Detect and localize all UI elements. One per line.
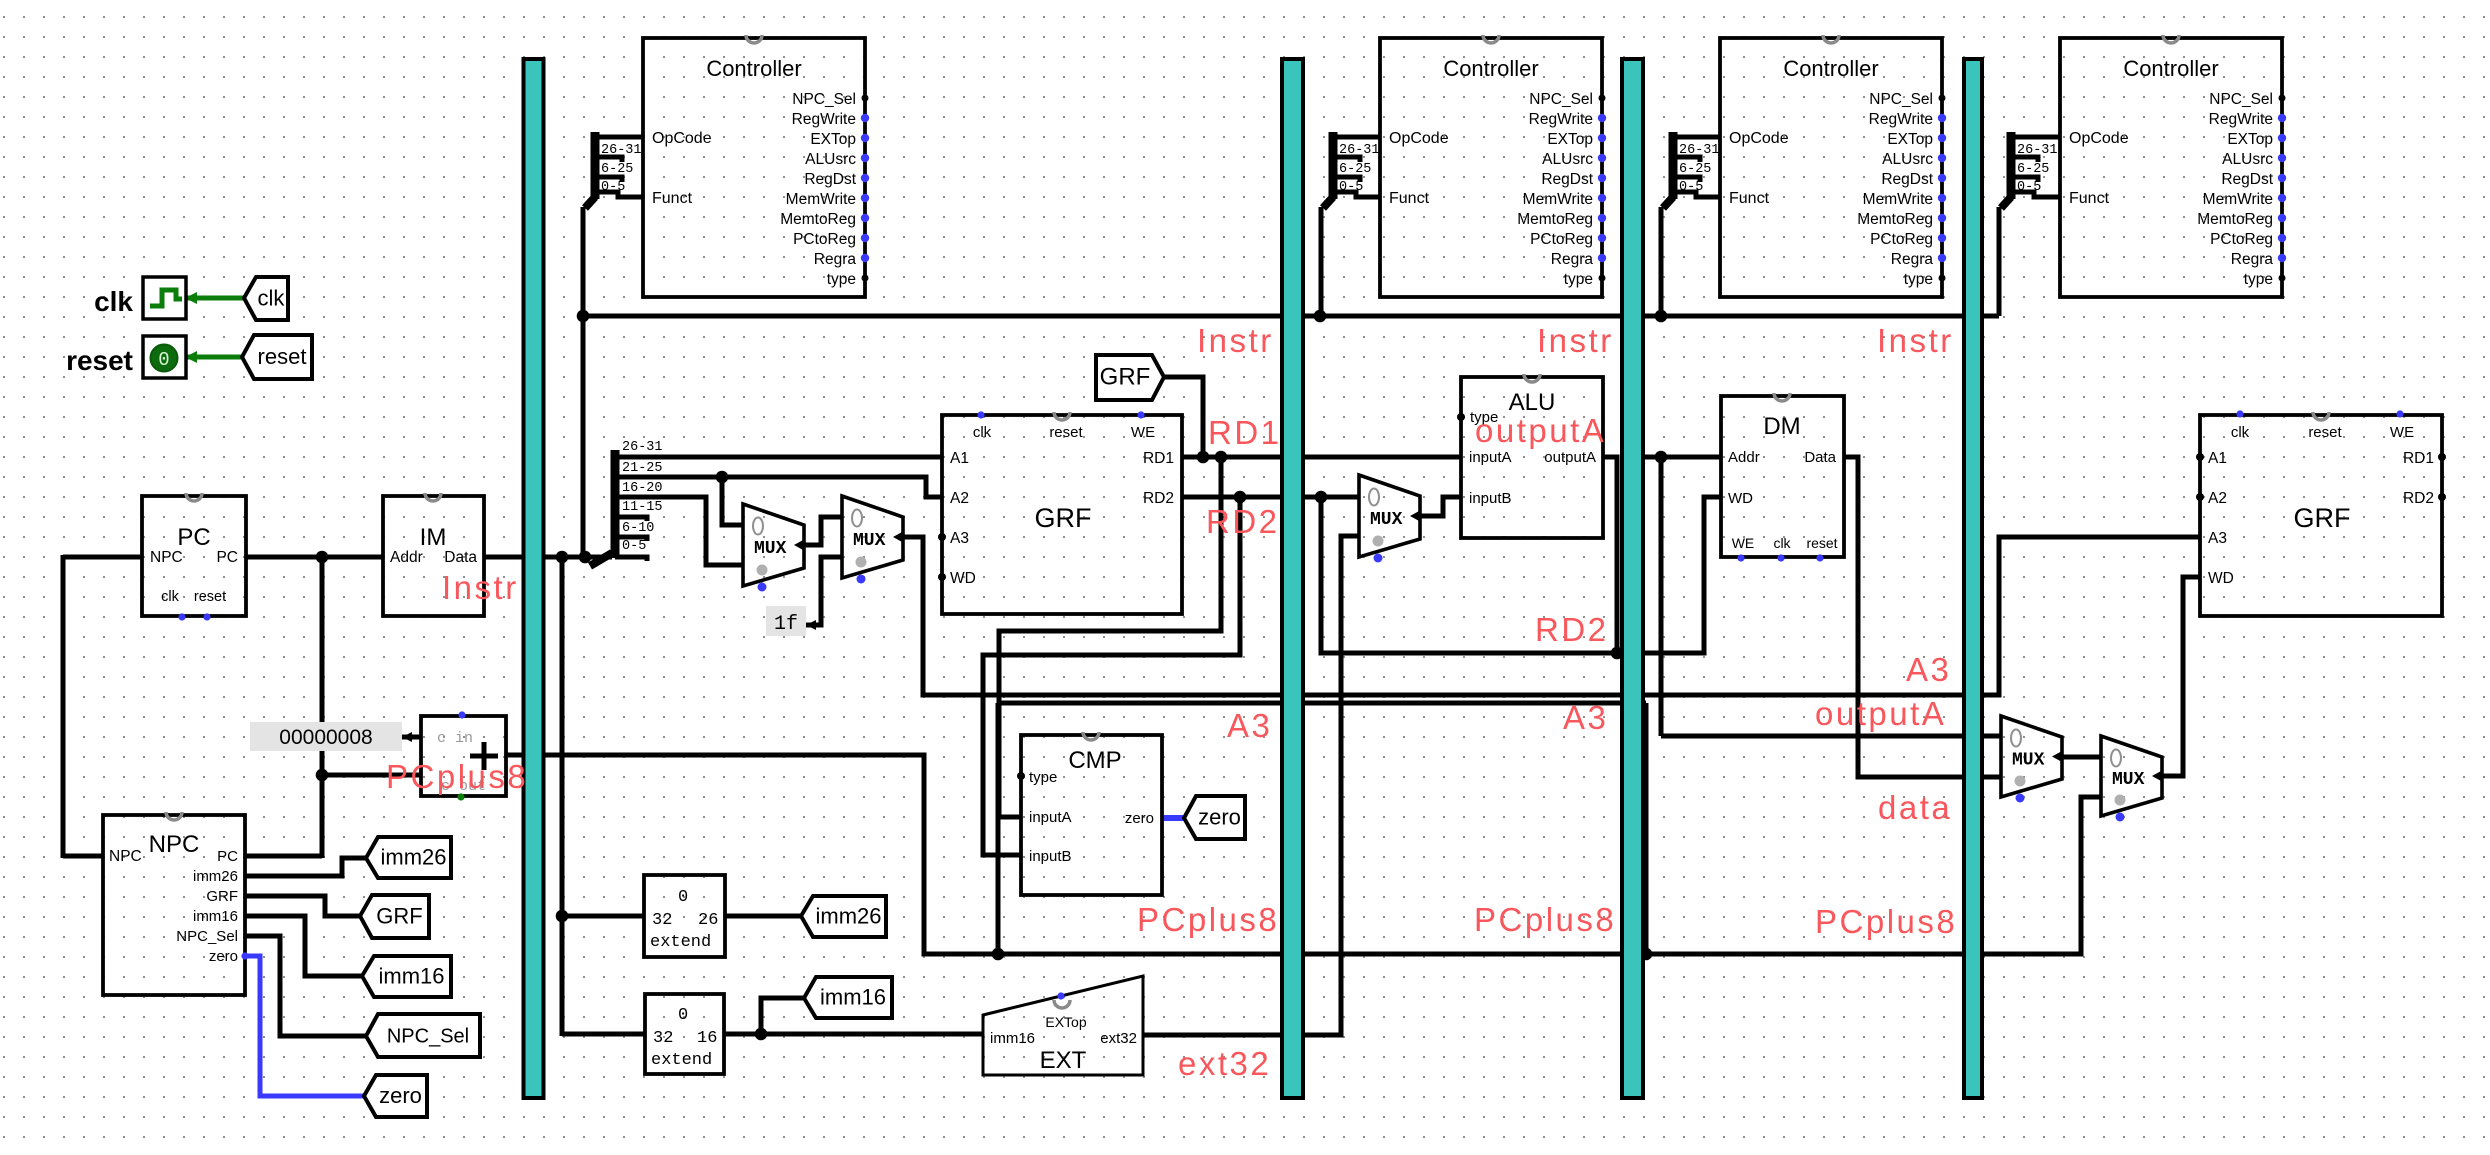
svg-text:extend: extend (651, 1051, 712, 1070)
svg-text:imm16: imm16 (193, 908, 238, 925)
GRF1 A3 pin dot (938, 533, 946, 541)
tunnel zero out (1184, 796, 1245, 839)
svg-text:MemtoReg: MemtoReg (2197, 211, 2273, 228)
svg-text:imm16: imm16 (820, 985, 886, 1010)
tunnel reset (242, 335, 312, 379)
svg-text:WD: WD (950, 570, 976, 587)
U3 RegWrite pin (1938, 114, 1946, 122)
arrowhead 1f wire (806, 620, 816, 630)
tunnel zero NPC (364, 1075, 427, 1117)
svg-text:RegWrite: RegWrite (1529, 111, 1593, 128)
svg-text:MemtoReg: MemtoReg (780, 211, 856, 228)
svg-text:reset: reset (66, 345, 133, 376)
wire MUX3 out to ALU inputB (1421, 497, 1461, 516)
IM anchor (425, 493, 441, 501)
svg-text:OpCode: OpCode (1389, 130, 1449, 147)
junction (1314, 310, 1327, 323)
adder PCplus8 (421, 716, 506, 796)
wire outputA loop to DM WD (1321, 497, 1721, 653)
svg-text:Regra: Regra (1891, 251, 1934, 268)
junction (556, 551, 569, 564)
CMP anchor (1083, 732, 1099, 740)
wire bits11-15 stub (615, 517, 647, 521)
svg-text:MemWrite: MemWrite (2203, 191, 2273, 208)
U2 PCtoReg pin (1598, 234, 1606, 242)
svg-text:ALUsrc: ALUsrc (805, 151, 856, 168)
adder plus sign (470, 742, 498, 770)
pipeline register bar 4 (1964, 59, 1982, 1098)
svg-text:A1: A1 (950, 450, 969, 467)
U4 Regra pin (2278, 254, 2286, 262)
svg-text:PC: PC (217, 848, 238, 865)
mux M2 (842, 496, 903, 578)
svg-text:zero: zero (209, 948, 238, 965)
svg-text:RD1: RD1 (2403, 450, 2434, 467)
svg-text:reset: reset (194, 589, 226, 605)
svg-text:ext32: ext32 (1100, 1030, 1137, 1047)
svg-text:clk: clk (94, 286, 133, 317)
comparator CMP (1021, 735, 1162, 895)
svg-text:NPC_Sel: NPC_Sel (1529, 91, 1593, 108)
svg-text:ALUsrc: ALUsrc (1542, 151, 1593, 168)
wire bits26-31 to GRF A1 (612, 455, 942, 460)
tunnel imm26 mid (801, 896, 886, 937)
wire NPC NPC_Sel out (245, 936, 366, 1036)
svg-text:RD1: RD1 (1143, 450, 1174, 467)
GRF1 clk pin (977, 411, 984, 418)
U4 RegDst pin (2278, 174, 2286, 182)
svg-text:Controller: Controller (1783, 56, 1878, 81)
GRF2 RD1 pin dot (2438, 453, 2446, 461)
wire ALU outputA drop (1603, 457, 1617, 655)
wire clk green (186, 296, 244, 301)
mux M3 (1359, 475, 1420, 557)
svg-text:RegDst: RegDst (804, 171, 856, 188)
svg-text:Regra: Regra (2231, 251, 2274, 268)
NPC zero pin (241, 952, 248, 959)
svg-text:zero: zero (1125, 810, 1154, 827)
GRF1 anchor / reset pin (1054, 412, 1070, 420)
svg-text:RegWrite: RegWrite (1869, 111, 1933, 128)
U4 MemWrite pin (2278, 194, 2286, 202)
svg-text:EXTop: EXTop (2227, 131, 2273, 148)
svg-text:imm26: imm26 (380, 845, 446, 870)
wire outputA forward vertical (1659, 457, 1664, 736)
svg-text:Regra: Regra (1551, 251, 1594, 268)
svg-text:MemWrite: MemWrite (1523, 191, 1593, 208)
U3 EXTop pin (1938, 134, 1946, 142)
PC reset pin (203, 613, 210, 620)
svg-text:EXTop: EXTop (1887, 131, 1933, 148)
register file GRF1 (942, 415, 1182, 614)
svg-text:Data: Data (1804, 449, 1836, 466)
memory IM (383, 496, 484, 616)
extender 32-26 (644, 875, 725, 957)
svg-text:MUX: MUX (853, 531, 886, 551)
U4 PCtoReg pin (2278, 234, 2286, 242)
svg-text:PCplus8: PCplus8 (386, 758, 528, 795)
svg-text:outputA: outputA (1544, 449, 1596, 466)
svg-text:PCtoReg: PCtoReg (1530, 231, 1593, 248)
wire bits21-25 to GRF A2 (612, 477, 942, 497)
U1 RegDst pin (861, 174, 869, 182)
svg-text:Funct: Funct (652, 190, 693, 207)
svg-text:A1: A1 (2208, 450, 2227, 467)
GRF2 RD2 pin dot (2438, 493, 2446, 501)
U2 ALUsrc pin (1598, 154, 1606, 162)
svg-text:RegWrite: RegWrite (2209, 111, 2273, 128)
wire NPC imm26 out (245, 858, 366, 876)
svg-text:type: type (1904, 271, 1933, 288)
svg-text:RegDst: RegDst (2221, 171, 2273, 188)
controller U3 (1720, 38, 1942, 297)
U2 EXTop pin (1598, 134, 1606, 142)
svg-text:EXT: EXT (1040, 1047, 1087, 1074)
EXT anchor (1054, 1000, 1070, 1008)
wire to MUX1 inA (722, 477, 743, 525)
tunnel imm26 NPC (366, 837, 451, 878)
GRF2 anchor / reset pin (2313, 412, 2329, 420)
svg-text:Funct: Funct (1729, 190, 1770, 207)
svg-text:Funct: Funct (2069, 190, 2110, 207)
svg-text:00000008: 00000008 (279, 726, 372, 749)
wire 1f const to MUX2 (806, 557, 842, 625)
wire bits6-10 stub (615, 537, 647, 541)
wire zero blue (245, 956, 364, 1096)
svg-text:PCplus8: PCplus8 (1474, 901, 1616, 938)
svg-text:26-31: 26-31 (1679, 143, 1720, 158)
svg-text:6-10: 6-10 (622, 521, 654, 536)
tunnel NPC_Sel NPC (366, 1014, 480, 1057)
wire ext32 to MUX3 inB (1143, 536, 1359, 1035)
U1 ALUsrc pin (861, 154, 869, 162)
svg-text:Instr: Instr (1537, 322, 1614, 359)
wire PCplus8 bus (506, 755, 2101, 954)
svg-text:32: 32 (652, 911, 672, 930)
splitter instruction to register fields (590, 553, 612, 566)
wire MUX1 out to MUX2 (804, 517, 842, 545)
svg-text:Controller: Controller (706, 56, 801, 81)
svg-text:type: type (827, 271, 856, 288)
svg-text:inputA: inputA (1469, 449, 1512, 466)
ALU anchor (1524, 374, 1540, 382)
svg-text:NPC_Sel: NPC_Sel (387, 1026, 469, 1048)
svg-text:type: type (2244, 271, 2273, 288)
wire NPC.PC output (245, 854, 322, 859)
wire to adder input B (322, 773, 421, 778)
tunnel GRF to RD1 (1096, 355, 1164, 400)
wire controller4 splitter feed (1997, 207, 2002, 316)
U1 NPC_Sel pin dot (862, 95, 869, 102)
arrowhead reset wire (185, 351, 197, 363)
svg-text:reset: reset (2308, 424, 2342, 441)
splitter U3 instruction fields (1663, 197, 1673, 208)
svg-text:11-15: 11-15 (622, 500, 663, 515)
svg-text:DM: DM (1763, 413, 1800, 440)
svg-text:OpCode: OpCode (652, 130, 712, 147)
U2 MemWrite pin (1598, 194, 1606, 202)
svg-text:RD2: RD2 (1143, 490, 1174, 507)
svg-text:zero: zero (1198, 805, 1241, 830)
wire outputA to MUX4 inA (1661, 734, 2001, 739)
svg-text:GRF: GRF (376, 904, 422, 929)
svg-text:GRF: GRF (206, 888, 238, 905)
svg-text:Regra: Regra (814, 251, 857, 268)
wire Instr down to extenders (560, 555, 565, 1036)
svg-text:EXTop: EXTop (1045, 1014, 1086, 1030)
wire PCplus8 branch left drop (996, 703, 1001, 954)
splitter U1 instruction fields (585, 197, 595, 208)
svg-text:type: type (1029, 769, 1057, 786)
DM anchor (1774, 393, 1790, 401)
PC anchor (186, 493, 202, 501)
tunnel GRF NPC (360, 895, 429, 938)
tunnel clk (244, 277, 288, 320)
U3 anchor (1823, 35, 1839, 43)
U2 NPC_Sel pin dot (1599, 95, 1606, 102)
svg-text:extend: extend (650, 933, 711, 952)
wire bits0-5 stub (615, 557, 647, 561)
wire RD2 to MUX3 inA (1182, 495, 1359, 500)
svg-text:Controller: Controller (1443, 56, 1538, 81)
arrowhead const wire (402, 732, 412, 742)
GRF2 clk pin (2236, 410, 2243, 417)
junction (1640, 948, 1653, 961)
svg-text:RegDst: RegDst (1881, 171, 1933, 188)
svg-text:A3: A3 (2208, 530, 2227, 547)
wire MUX4 out to MUX5 (2062, 755, 2101, 760)
wire controller1 splitter feed (581, 207, 586, 559)
svg-text:MemtoReg: MemtoReg (1517, 211, 1593, 228)
wire extend26 out to imm26 tunnel (725, 914, 801, 919)
U2 RegWrite pin (1598, 114, 1606, 122)
svg-text:Instr: Instr (1877, 322, 1954, 359)
svg-text:PC: PC (177, 524, 210, 551)
svg-text:outputA: outputA (1815, 695, 1946, 732)
svg-text:Addr: Addr (1728, 449, 1760, 466)
wire into 32-26 extend (562, 914, 644, 919)
svg-text:RD2: RD2 (2403, 490, 2434, 507)
wire PCplus8 branch (998, 701, 1646, 706)
EXT EXTop pin (1057, 992, 1064, 999)
extender 32-16 (645, 994, 724, 1074)
svg-text:6-25: 6-25 (601, 162, 633, 177)
svg-text:RegDst: RegDst (1541, 171, 1593, 188)
svg-text:CMP: CMP (1068, 747, 1121, 774)
arrowhead clk wire (185, 292, 197, 304)
svg-text:NPC: NPC (149, 831, 200, 858)
svg-text:PCtoReg: PCtoReg (793, 231, 856, 248)
svg-text:type: type (1564, 271, 1593, 288)
svg-text:ALUsrc: ALUsrc (1882, 151, 1933, 168)
svg-text:WE: WE (1732, 535, 1755, 551)
junction (1215, 451, 1228, 464)
svg-text:16: 16 (697, 1029, 717, 1048)
wire DM Data to MUX4 inB (1844, 457, 2001, 777)
svg-text:reset: reset (258, 344, 307, 369)
svg-text:26-31: 26-31 (2017, 143, 2058, 158)
svg-text:clk: clk (2231, 424, 2250, 441)
svg-text:0: 0 (158, 349, 169, 371)
block NPC (103, 815, 245, 995)
svg-text:Addr: Addr (390, 549, 423, 566)
svg-text:WE: WE (2390, 424, 2414, 441)
junction (579, 551, 592, 564)
svg-text:IM: IM (420, 524, 447, 551)
svg-text:A3: A3 (1227, 707, 1272, 744)
U1 MemWrite pin (861, 194, 869, 202)
splitter U4 instruction fields (2001, 197, 2011, 208)
svg-text:GRF: GRF (2294, 503, 2351, 533)
U3 RegDst pin (1938, 174, 1946, 182)
GRF1 WD pin dot (938, 573, 946, 581)
svg-text:Funct: Funct (1389, 190, 1430, 207)
ALU type pin dot (1457, 413, 1465, 421)
wire branch to imm16 tunnel (761, 998, 804, 1034)
GRF2 WE pin (2396, 410, 2403, 417)
svg-text:ALUsrc: ALUsrc (2222, 151, 2273, 168)
pipeline register bar 3 (1622, 59, 1643, 1098)
U1 Regra pin (861, 254, 869, 262)
svg-text:6-25: 6-25 (1339, 162, 1371, 177)
svg-text:1f: 1f (774, 613, 798, 636)
svg-text:26: 26 (698, 911, 718, 930)
wire NPC imm16 out (245, 916, 362, 976)
svg-text:PCtoReg: PCtoReg (1870, 231, 1933, 248)
U3 MemWrite pin (1938, 194, 1946, 202)
svg-text:A3: A3 (1906, 651, 1951, 688)
wire GRF tunnel to RD1 (1164, 377, 1203, 457)
svg-text:imm16: imm16 (990, 1030, 1035, 1047)
U1 anchor (746, 35, 762, 43)
svg-text:RD2: RD2 (1535, 611, 1609, 648)
U1 type pin dot (862, 275, 869, 282)
wire PC-out down to NPC (320, 557, 325, 858)
wire extend16 out to EXT (724, 1032, 983, 1037)
svg-text:RD2: RD2 (1206, 503, 1280, 540)
adder carry-out pin (457, 793, 464, 800)
mux M4 (2001, 716, 2062, 797)
svg-text:WD: WD (1728, 490, 1753, 507)
svg-text:Data: Data (444, 549, 477, 566)
memory DM (1721, 396, 1844, 557)
svg-text:RD1: RD1 (1208, 414, 1282, 451)
svg-text:NPC_Sel: NPC_Sel (1869, 91, 1933, 108)
svg-text:Instr: Instr (442, 569, 519, 606)
junction (1611, 647, 1624, 660)
pipeline register bar 2 (1282, 59, 1303, 1098)
svg-text:MemtoReg: MemtoReg (1857, 211, 1933, 228)
svg-text:reset: reset (1806, 535, 1837, 551)
controller U1 (643, 38, 865, 297)
GRF2 A2 pin dot (2196, 493, 2204, 501)
register PC (142, 496, 246, 616)
U3 MemtoReg pin (1938, 214, 1946, 222)
junction (755, 1028, 768, 1041)
svg-text:MUX: MUX (1370, 510, 1403, 530)
U1 RegWrite pin (861, 114, 869, 122)
extender EXT (983, 976, 1143, 1075)
svg-text:PCplus8: PCplus8 (1137, 901, 1279, 938)
svg-text:clk: clk (1773, 535, 1791, 551)
U3 PCtoReg pin (1938, 234, 1946, 242)
input pin reset (143, 336, 186, 378)
wire bits16-20 to MUX1 inB (612, 497, 743, 565)
U4 EXTop pin (2278, 134, 2286, 142)
junction (992, 948, 1005, 961)
junction (1655, 451, 1668, 464)
svg-text:OpCode: OpCode (2069, 130, 2129, 147)
svg-text:26-31: 26-31 (1339, 143, 1380, 158)
svg-text:data: data (1878, 789, 1952, 826)
U1 EXTop pin (861, 134, 869, 142)
svg-text:0-5: 0-5 (622, 539, 646, 554)
wire RD2 to CMP inputB (983, 497, 1240, 855)
svg-text:OpCode: OpCode (1729, 130, 1789, 147)
svg-text:NPC: NPC (150, 549, 183, 566)
svg-text:A2: A2 (2208, 490, 2227, 507)
svg-text:clk: clk (258, 286, 286, 311)
svg-text:PC: PC (216, 549, 238, 566)
svg-text:0-5: 0-5 (1679, 180, 1703, 195)
svg-text:21-25: 21-25 (622, 461, 663, 476)
tunnel imm16 mid (804, 977, 892, 1018)
svg-text:reset: reset (1049, 424, 1083, 441)
junction (1655, 310, 1668, 323)
CMP type pin dot (1017, 772, 1025, 780)
svg-text:0-5: 0-5 (601, 180, 625, 195)
svg-text:inputB: inputB (1029, 848, 1072, 865)
wire A3 net MUX2 out to GRF2 A3 (904, 537, 2200, 695)
svg-text:6-25: 6-25 (1679, 162, 1711, 177)
svg-text:PCplus8: PCplus8 (1815, 903, 1957, 940)
junction (716, 471, 729, 484)
PC clk pin (178, 613, 185, 620)
svg-text:MUX: MUX (2012, 751, 2045, 771)
constant 1f (766, 606, 806, 636)
wire NPC GRF out (245, 896, 360, 916)
svg-text:WD: WD (2208, 570, 2234, 587)
svg-text:outputA: outputA (1475, 412, 1606, 449)
GRF2 A1 pin dot (2196, 453, 2204, 461)
DM clk pin (1777, 554, 1784, 561)
wire left loop vertical (61, 555, 66, 858)
wire CMP zero blue (1162, 815, 1184, 821)
wire into 32-16 extend (562, 1032, 645, 1037)
wire const to adder input A (402, 735, 421, 740)
svg-text:Instr: Instr (1197, 322, 1274, 359)
mux M5 (2101, 736, 2162, 816)
svg-text:26-31: 26-31 (601, 143, 642, 158)
alu ALU (1461, 377, 1603, 538)
svg-text:32: 32 (653, 1029, 673, 1048)
DM WE pin (1737, 554, 1744, 561)
controller U2 (1380, 38, 1602, 297)
U1 PCtoReg pin (861, 234, 869, 242)
U2 RegDst pin (1598, 174, 1606, 182)
svg-text:Controller: Controller (2123, 56, 2218, 81)
svg-text:0-5: 0-5 (2017, 180, 2041, 195)
U3 type pin dot (1939, 275, 1946, 282)
svg-text:imm16: imm16 (378, 964, 444, 989)
wire PC out to IM Addr (246, 555, 383, 560)
wire controller3 splitter feed (1659, 207, 1664, 316)
register file GRF2 (2200, 415, 2442, 616)
U3 ALUsrc pin (1938, 154, 1946, 162)
svg-text:RegWrite: RegWrite (792, 111, 856, 128)
U1 MemtoReg pin (861, 214, 869, 222)
svg-text:GRF: GRF (1100, 364, 1151, 391)
